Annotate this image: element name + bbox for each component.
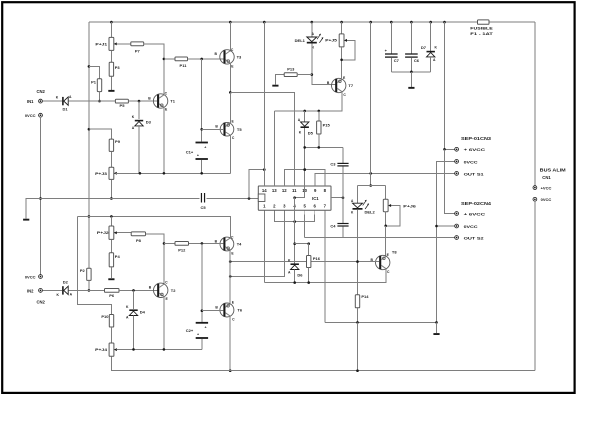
wire: +6VCC feed — [444, 22, 446, 149]
wire: IN2 to D2 — [42, 289, 62, 291]
diode D4 — [126, 305, 146, 320]
svg-text:CN2: CN2 — [37, 299, 46, 304]
ground — [23, 219, 29, 221]
svg-text:P3: P3 — [115, 65, 121, 70]
svg-text:F1 - 1AT: F1 - 1AT — [470, 31, 493, 36]
wire: D7 bottom — [430, 57, 432, 72]
svg-text:+: + — [204, 326, 206, 330]
junction — [307, 242, 310, 245]
wire: P1 branch — [89, 66, 100, 78]
wire: P4 link — [110, 239, 112, 252]
svg-text:0VCC: 0VCC — [464, 224, 478, 229]
wire: pin 13 to D5 node line — [273, 111, 275, 186]
svg-text:P7: P7 — [135, 48, 141, 53]
wire: P13 to junction — [297, 74, 312, 76]
wire: T6 base — [202, 310, 224, 312]
wire: C6 top — [410, 22, 412, 53]
svg-text:P+J6: P+J6 — [403, 203, 417, 208]
wire: pin 9 to OUT S1 — [315, 173, 455, 186]
terminal IN2 — [27, 288, 42, 293]
LED DEL2 — [351, 199, 376, 215]
junction on top rail — [410, 21, 413, 24]
wire: P15 bottom — [318, 134, 320, 147]
svg-text:P6: P6 — [109, 293, 115, 298]
resistor P8 — [131, 232, 145, 243]
terminal +6VCC CN3 — [455, 147, 486, 152]
wire: P9 to P+J3 — [110, 151, 112, 167]
terminal 0VCC bottom — [25, 274, 43, 279]
svg-text:P4: P4 — [115, 254, 121, 259]
svg-text:T6: T6 — [237, 308, 242, 313]
svg-text:SEP-01CN3: SEP-01CN3 — [461, 136, 492, 141]
svg-text:T2: T2 — [171, 288, 176, 293]
junction — [435, 225, 438, 228]
junction — [110, 197, 113, 200]
wire: base rail down to C1 — [201, 59, 203, 142]
wire: D3 to wiper line — [138, 126, 140, 173]
transistor T5 — [215, 120, 242, 141]
wire: T4 base from P12 — [164, 242, 224, 244]
wire: D5 top — [304, 111, 306, 122]
junction on top rail — [443, 21, 446, 24]
svg-text:C4: C4 — [330, 223, 336, 228]
svg-text:C5: C5 — [200, 205, 206, 210]
junction — [88, 215, 91, 218]
wire: 0VCC to ground — [436, 322, 438, 333]
junction — [201, 242, 204, 245]
wire: P6 to T2 base — [119, 289, 158, 291]
wire: D4 to wiper line — [133, 316, 135, 350]
wire: DEL1 to base node — [312, 44, 336, 85]
terminal +VCC CN1 — [533, 186, 551, 191]
resistor P11 — [175, 57, 188, 68]
svg-text:BUS ALIM: BUS ALIM — [540, 167, 567, 172]
svg-text:C1+: C1+ — [186, 149, 194, 154]
wire: rail to pin 14 — [263, 22, 265, 186]
junction — [318, 146, 321, 149]
wire: pin4 line down — [294, 214, 296, 263]
wire: rail down to DEL2 loop — [370, 22, 372, 185]
wire: to ground — [410, 72, 412, 87]
junction — [248, 197, 251, 200]
junction — [201, 309, 204, 312]
wire: filter bottom bus — [391, 71, 430, 73]
junction — [342, 196, 345, 199]
wire: to C3 — [342, 147, 344, 163]
transistor T6 — [215, 300, 242, 321]
resistor P7 — [131, 42, 144, 53]
junction — [98, 100, 101, 103]
diode D5 — [298, 118, 314, 135]
wire: P10 to P+J4 — [111, 327, 113, 343]
capacitor C5 — [200, 193, 206, 210]
wire: C5 ground stub — [26, 198, 40, 218]
svg-text:P15: P15 — [323, 122, 331, 127]
svg-text:IN1: IN1 — [27, 99, 34, 104]
svg-text:0VCC: 0VCC — [541, 197, 552, 202]
junction — [340, 59, 343, 62]
transistor T2 — [149, 281, 176, 301]
svg-text:P16: P16 — [313, 256, 321, 261]
wire: node line y=111 — [274, 110, 342, 112]
svg-text:C2+: C2+ — [186, 328, 194, 333]
svg-text:+ 6VCC: + 6VCC — [464, 147, 486, 152]
junction — [293, 242, 296, 245]
wire: P1 to IN1 line — [99, 92, 101, 102]
terminal 0VCC CN3 — [455, 159, 478, 164]
junction — [229, 369, 232, 372]
junction on top rail — [390, 21, 393, 24]
wire: line y=322 — [325, 321, 437, 323]
wire: C6 bottom — [410, 58, 412, 72]
wire: T4 emitter down — [229, 249, 231, 303]
svg-text:P14: P14 — [361, 294, 369, 299]
junction — [369, 184, 372, 187]
wire: P3 link — [110, 50, 112, 62]
junction — [307, 281, 310, 284]
svg-text:D6: D6 — [297, 272, 303, 277]
junction — [410, 71, 413, 74]
transistor T8 — [370, 250, 397, 274]
svg-text:T3: T3 — [237, 55, 242, 60]
svg-text:+ 6VCC: + 6VCC — [464, 211, 486, 216]
wire: pin 7 down — [324, 214, 326, 322]
junction — [138, 100, 141, 103]
ground — [108, 90, 114, 92]
junction — [443, 148, 446, 151]
svg-text:+: + — [197, 333, 199, 337]
svg-text:DEL2: DEL2 — [365, 210, 376, 215]
fuse F1 — [470, 20, 493, 36]
svg-text:CN1: CN1 — [542, 175, 551, 180]
resistor P16 — [307, 256, 321, 268]
resistor P6 — [105, 289, 120, 298]
wire: rail to P+J1 — [110, 22, 112, 37]
svg-text:0VCC: 0VCC — [25, 274, 36, 279]
wire: pin1 down and y=282 line — [263, 214, 265, 282]
terminal OUT S2 — [455, 235, 485, 240]
resistor P13 — [284, 67, 297, 77]
svg-text:+: + — [204, 145, 206, 149]
junction — [356, 321, 359, 324]
wire: pin12-pin8 link — [284, 170, 325, 186]
op-amp IC1 — [258, 182, 331, 214]
wire: P13 ground leg — [275, 75, 284, 85]
wire: P16 bottom leg — [308, 268, 310, 283]
junction — [163, 348, 166, 351]
capacitor C1 — [186, 142, 208, 160]
svg-text:D7: D7 — [421, 45, 427, 50]
terminal OUT S1 — [455, 171, 485, 176]
potentiometer P+J6 — [383, 199, 417, 212]
junction — [200, 128, 203, 131]
wire: P14 bottom — [357, 308, 359, 322]
potentiometer P+J2 — [97, 226, 119, 239]
svg-text:CN2: CN2 — [37, 89, 46, 94]
wire: T8 base line — [230, 261, 379, 263]
wire: T2 emitter — [163, 297, 165, 350]
resistor P5 — [115, 99, 128, 108]
junction on top rail — [229, 21, 232, 24]
diode D2 — [56, 280, 72, 297]
svg-text:P13: P13 — [287, 67, 295, 72]
label SEP-02CN4 — [461, 201, 492, 206]
junction — [200, 58, 203, 61]
svg-text:T7: T7 — [348, 83, 353, 88]
svg-text:T4: T4 — [237, 242, 242, 247]
ground — [272, 85, 278, 87]
diode D1 — [56, 95, 72, 111]
wire: D7 top — [430, 22, 432, 51]
wire: DEL2 top leg — [357, 186, 359, 204]
wire: D1 to P5 — [68, 100, 115, 102]
resistor P3 — [109, 62, 120, 76]
svg-text:0VCC: 0VCC — [464, 159, 478, 164]
wire: rail-2 — [78, 216, 231, 237]
junction — [369, 172, 372, 175]
resistor P4 — [109, 253, 120, 267]
svg-text:14: 14 — [262, 188, 267, 193]
svg-text:P11: P11 — [180, 63, 188, 68]
wire: 0VCC CN4 stub — [437, 225, 455, 227]
wire: wiper line y173 — [115, 172, 230, 174]
wire: C7 top — [390, 22, 392, 53]
junction — [293, 196, 296, 199]
wire: 0VCC vertical — [40, 117, 42, 275]
svg-text:C6: C6 — [414, 58, 420, 63]
wire: T5 base — [202, 128, 224, 130]
terminal 0VCC top — [25, 113, 43, 118]
resistor P12 — [175, 242, 189, 253]
wire: IN1 to D1 — [42, 100, 62, 102]
terminal +6VCC CN4 — [455, 211, 486, 216]
wire: rail to DEL1 — [311, 22, 313, 37]
wire: C4 link — [342, 198, 344, 223]
junction — [303, 146, 306, 149]
wire: C4 to pin5 line — [305, 227, 343, 238]
terminal 0VCC CN4 — [455, 224, 478, 229]
wire: T5 collector down — [229, 135, 231, 174]
junction on top rail — [110, 21, 113, 24]
wire: T5 emitter up — [229, 92, 231, 124]
wire: +VCC down to CN1 — [534, 22, 536, 186]
wire: P7 to T1 collector — [144, 44, 164, 94]
wire: P15 top — [318, 111, 320, 121]
wire: pin4 line through box — [294, 198, 296, 211]
wire: wiper line y349 — [117, 348, 202, 350]
resistor P1 — [91, 79, 102, 92]
wire: OUT S2 line — [343, 237, 455, 239]
junction — [384, 225, 387, 228]
junction — [229, 275, 232, 278]
svg-text:P2: P2 — [80, 268, 86, 273]
svg-text:OUT S2: OUT S2 — [464, 235, 485, 240]
wire: pin 5 down — [304, 214, 306, 237]
wire: P+J5 bottom to T7 emitter — [341, 47, 343, 80]
svg-text:T8: T8 — [392, 250, 397, 255]
capacitor C2 — [186, 322, 208, 339]
svg-text:+VCC: +VCC — [541, 186, 552, 191]
wire: P16 branch — [295, 243, 309, 245]
svg-text:SEP-02CN4: SEP-02CN4 — [461, 201, 492, 206]
svg-text:D4: D4 — [140, 310, 146, 315]
svg-text:D3: D3 — [146, 120, 152, 125]
wire: P5 to T1 base — [128, 100, 157, 102]
svg-text:0VCC: 0VCC — [25, 113, 36, 118]
ground — [408, 87, 414, 89]
svg-text:C3: C3 — [330, 161, 336, 166]
wire: DEL2 loop top — [358, 185, 386, 187]
wire: into pin 10 internal — [295, 186, 305, 198]
wire: T3 collector to rail — [229, 22, 231, 51]
wire: P4 ground leg — [110, 267, 112, 278]
junction — [163, 242, 166, 245]
svg-text:FUSIBLE: FUSIBLE — [470, 26, 493, 31]
wire: P3 to ground — [110, 76, 112, 90]
svg-text:P10: P10 — [101, 314, 109, 319]
resistor P2 — [80, 268, 91, 280]
resistor P9 — [109, 139, 121, 151]
wire: P8 to T2 collector — [146, 234, 165, 284]
potentiometer P+J3 — [95, 167, 140, 179]
junction — [229, 91, 232, 94]
potentiometer P+J1 — [95, 37, 116, 50]
svg-text:T1: T1 — [170, 99, 175, 104]
wire: T8 collector — [264, 269, 386, 283]
svg-text:P+J2: P+J2 — [97, 230, 110, 235]
resistor P15 — [317, 121, 331, 134]
diode D7 — [421, 45, 438, 62]
junction — [88, 128, 91, 131]
junction on top rail — [429, 21, 432, 24]
wire: C5 line — [41, 197, 259, 199]
wire: rail to P+J5 — [341, 22, 343, 34]
wire: top +VCC rail — [89, 21, 535, 23]
junction — [303, 168, 306, 171]
resistor P10 — [101, 314, 113, 327]
junction — [132, 289, 135, 292]
ground — [433, 333, 439, 335]
junction — [293, 220, 296, 223]
svg-text:T5: T5 — [237, 127, 242, 132]
wire: P14 line to bottom rail — [357, 322, 359, 370]
junction — [435, 321, 438, 324]
wire: IC right edge to C-node — [331, 197, 343, 199]
capacitor C6 — [405, 53, 420, 63]
junction — [356, 369, 359, 372]
svg-text:+: + — [197, 154, 199, 158]
wire: P2 bottom — [88, 280, 90, 290]
transistor T1 — [148, 91, 175, 111]
wire: D2 to P6 — [68, 289, 104, 291]
junction — [39, 197, 42, 200]
ground — [108, 278, 114, 280]
wire: +6VCC CN4 stub — [445, 149, 455, 213]
wire: C7 bottom — [390, 58, 392, 72]
svg-text:C7: C7 — [394, 58, 400, 63]
svg-text:D2: D2 — [63, 280, 69, 285]
svg-text:P1: P1 — [91, 79, 97, 84]
wire: P16 top leg — [308, 244, 310, 256]
wire: T7 collector — [341, 91, 343, 111]
svg-text:P9: P9 — [115, 139, 121, 144]
potentiometer P+J4 — [95, 343, 138, 356]
svg-text:DEL1: DEL1 — [295, 38, 306, 43]
wire: P+J6 wiper loop — [386, 206, 400, 226]
diode D6 — [288, 259, 303, 278]
wire: 0VCC CN3 stub — [437, 161, 455, 322]
junction — [163, 172, 166, 175]
junction — [311, 73, 314, 76]
terminal 0VCC CN1 — [533, 197, 551, 202]
junction — [200, 172, 203, 175]
wire: +6VCC CN3 stub — [445, 148, 455, 150]
junction — [163, 58, 166, 61]
svg-text:13: 13 — [272, 188, 277, 193]
wire: base rail down to C2 — [201, 243, 203, 322]
wire: rail-2 to P+J2 — [110, 216, 112, 226]
wire: D6 bottom — [294, 270, 296, 283]
potentiometer P+J5 — [325, 34, 352, 47]
svg-text:P8: P8 — [136, 238, 142, 243]
junction — [132, 348, 135, 351]
wire: C2 bottom — [201, 339, 203, 350]
wire: D5 node down to pin10 — [304, 147, 306, 186]
junction — [110, 215, 113, 218]
wire: DEL2 bottom leg — [357, 210, 359, 295]
wire: pin2-pin6 U — [274, 214, 314, 221]
junction on top rail — [263, 21, 266, 24]
wire: P+J6 top leg — [385, 186, 387, 200]
svg-text:P5: P5 — [120, 103, 126, 108]
wire: x77 leg to P10 — [78, 216, 112, 314]
label CN2 bottom — [37, 299, 46, 304]
LED DEL1 — [295, 32, 324, 49]
wire: to T8 emitter — [385, 226, 387, 256]
wire: T7 collector to node line — [341, 110, 343, 112]
junction — [229, 260, 232, 263]
wire: P+J3 bottom — [110, 179, 112, 198]
capacitor C7 — [385, 48, 400, 63]
wire: CN1 0VCC to bottom rail — [534, 201, 536, 371]
capacitor C3 — [330, 161, 348, 166]
transistor T4 — [215, 235, 242, 255]
junction — [303, 168, 306, 171]
junction on top rail — [311, 21, 314, 24]
wire: D5 bottom — [304, 128, 306, 147]
junction on top rail — [369, 21, 372, 24]
wire: node line y=147 — [305, 146, 343, 148]
junction — [303, 110, 306, 113]
svg-text:IN2: IN2 — [27, 288, 34, 293]
wire: P9 branch — [89, 129, 112, 139]
wire: C1 bottom — [201, 160, 203, 173]
wire: T6 collector down — [229, 316, 231, 371]
svg-text:OUT S1: OUT S1 — [464, 171, 485, 176]
label CN2 — [37, 89, 46, 94]
label CN1 — [542, 175, 551, 180]
wire: P11 line — [164, 58, 175, 60]
transistor T7 — [327, 76, 354, 97]
svg-text:IC1: IC1 — [312, 196, 319, 201]
svg-text:P+J5: P+J5 — [325, 38, 337, 43]
wire: L-link to pin14 rail — [249, 170, 264, 199]
junction — [293, 281, 296, 284]
svg-text:P+J3: P+J3 — [95, 171, 108, 176]
wire: P+J6 bottom — [385, 212, 387, 226]
wire: T1 emitter — [163, 107, 165, 173]
junction — [263, 168, 266, 171]
